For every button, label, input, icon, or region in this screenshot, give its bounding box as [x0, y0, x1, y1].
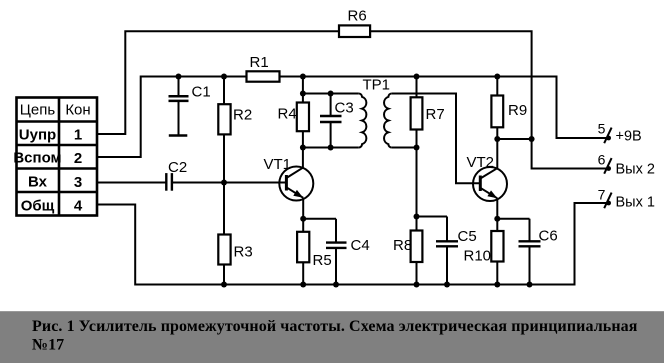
node VT2 emitter / R10 / C6: [494, 216, 500, 222]
svg-text:Кон: Кон: [65, 102, 90, 119]
node C4 on common rail: [333, 282, 339, 288]
terminal 6 Vых 2: [598, 152, 655, 178]
node R3 on common rail: [221, 282, 227, 288]
node R4 top / C3 line: [300, 91, 306, 97]
resistor R4: [302, 77, 304, 103]
node R7 bottom / secondary: [414, 145, 420, 151]
svg-text:R7: R7: [426, 106, 445, 123]
node R7 on rail: [414, 74, 420, 80]
capacitor C5: [417, 217, 459, 285]
resistor R9: [496, 77, 498, 96]
capacitor C1: [169, 77, 189, 136]
svg-text:C1: C1: [192, 84, 211, 101]
svg-text:VT1: VT1: [264, 156, 292, 173]
svg-text:№17: №17: [32, 337, 64, 354]
svg-text:R4: R4: [278, 106, 297, 123]
svg-text:Общ: Общ: [21, 198, 55, 215]
node R9 bottom / VT2 collector: [494, 136, 500, 142]
node junction R6/R9: [529, 136, 535, 142]
capacitor C6: [497, 219, 540, 285]
wire: junction down to terminal 6: [532, 139, 610, 169]
wire: rail right of R1 to +9V corner: [280, 77, 611, 139]
svg-text:Рис. 1 Усилитель промежуточной: Рис. 1 Усилитель промежуточной частоты. …: [32, 318, 638, 335]
wire: pin2 stub to +9V rail: [97, 77, 247, 158]
svg-text:ТР1: ТР1: [363, 77, 391, 94]
svg-text:+9В: +9В: [616, 129, 642, 145]
svg-text:C3: C3: [335, 100, 354, 117]
svg-text:R2: R2: [233, 107, 252, 124]
svg-text:4: 4: [74, 198, 83, 215]
svg-text:R6: R6: [348, 8, 367, 25]
svg-text:5: 5: [598, 121, 606, 137]
node C5 on common rail: [444, 282, 450, 288]
svg-text:3: 3: [74, 174, 82, 191]
node R5 on common rail: [300, 282, 306, 288]
connector table X1: [17, 98, 98, 216]
resistor R6: [339, 25, 370, 37]
svg-text:C6: C6: [539, 228, 558, 245]
svg-text:R3: R3: [234, 244, 253, 261]
resistor R8: [411, 231, 423, 263]
wire: secondary bottom to R7: [392, 147, 417, 149]
node R2 on rail: [221, 74, 227, 80]
wire: tank bottom line: [303, 147, 359, 149]
svg-text:R10: R10: [464, 248, 492, 265]
svg-text:R9: R9: [508, 102, 527, 119]
svg-text:6: 6: [598, 152, 606, 168]
svg-text:R1: R1: [250, 54, 269, 71]
svg-text:Вспом: Вспом: [13, 150, 61, 167]
svg-text:C4: C4: [351, 237, 370, 254]
resistor R2: [223, 77, 225, 105]
node R8 top / C5: [414, 214, 420, 220]
wire: C2 to VT1 base: [172, 182, 287, 184]
caption band: [0, 311, 664, 363]
wire: R9 node to R6 node: [497, 138, 531, 140]
svg-text:2: 2: [74, 150, 82, 167]
terminal 7 Vых 1: [598, 186, 655, 210]
terminal 5 +9V: [598, 121, 642, 145]
node C1 on rail: [176, 74, 182, 80]
svg-text:VT2: VT2: [467, 154, 495, 171]
capacitor C3: [320, 94, 342, 148]
svg-text:7: 7: [598, 186, 606, 202]
capacitor C4: [303, 219, 346, 285]
resistor R7: [416, 77, 418, 98]
wire: secondary top to VT2 base: [392, 94, 481, 184]
svg-text:C5: C5: [458, 228, 477, 245]
transistor VT1: [279, 148, 313, 219]
resistor R1: [247, 71, 280, 81]
wire: tank top line: [303, 93, 359, 95]
node R8 on common rail: [414, 282, 420, 288]
svg-text:Вых 2: Вых 2: [616, 162, 655, 178]
node R4 bottom: [300, 145, 306, 151]
node R10 on common rail: [494, 282, 500, 288]
svg-text:1: 1: [74, 127, 82, 144]
transistor VT2: [473, 167, 507, 219]
wire: R6 right to Vых2 node: [370, 31, 531, 139]
transformer TP1 primary winding: [359, 94, 367, 148]
node C3 top: [328, 91, 334, 97]
transformer TP1 secondary winding: [384, 94, 392, 148]
resistor R10: [496, 219, 498, 231]
svg-text:Вых 1: Вых 1: [616, 195, 655, 211]
wire: VT2 collector lead: [496, 139, 498, 168]
resistor R3: [223, 183, 225, 235]
svg-text:R8: R8: [393, 237, 412, 254]
svg-text:C2: C2: [168, 159, 187, 176]
svg-text:R5: R5: [313, 252, 332, 269]
wire: pin3 stub to C2: [97, 182, 166, 184]
node junction base/R2/R3: [221, 180, 227, 186]
svg-text:Uупр: Uупр: [19, 127, 56, 144]
node C6 on common rail: [527, 282, 533, 288]
node VT1 emitter / R5 / C4: [300, 216, 306, 222]
wire: pin1 stub to R6 top net: [97, 31, 339, 134]
node C3 bottom: [328, 145, 334, 151]
svg-text:Цепь: Цепь: [20, 102, 56, 119]
svg-text:Вх: Вх: [28, 174, 48, 191]
node R4 on rail: [300, 74, 306, 80]
resistor R5: [302, 219, 304, 232]
node R9 on rail: [494, 74, 500, 80]
capacitor C2: [166, 173, 172, 191]
wire: pin4 stub to common rail: [97, 203, 610, 285]
